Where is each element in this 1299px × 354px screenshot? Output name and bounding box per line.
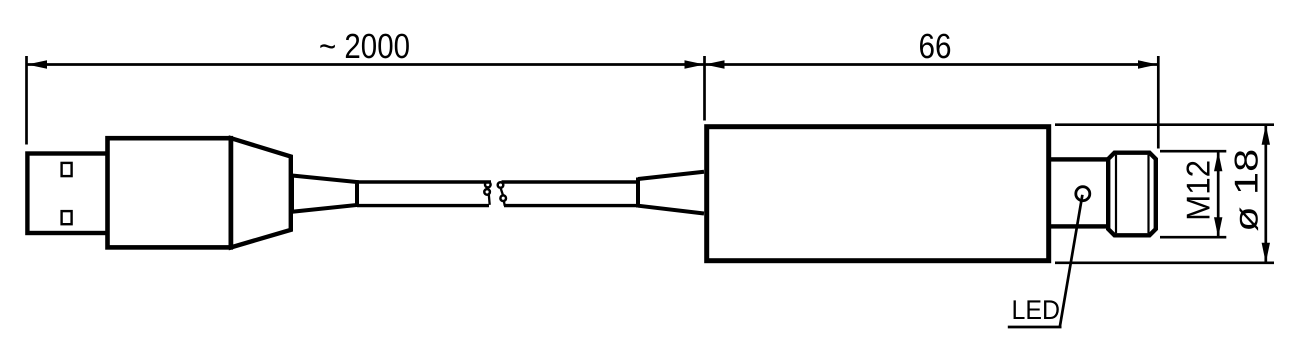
- M12 extension line top: [1160, 150, 1226, 153]
- cable break symbol left: top loop: [485, 182, 491, 188]
- diameter 18 extension line bottom: [1055, 261, 1274, 264]
- diameter 18 arrowhead up: [1262, 125, 1270, 145]
- svg-text:LED: LED: [1012, 295, 1061, 325]
- adapter body rectangle (66 mm): [707, 127, 1049, 261]
- cable left segment top line: [357, 180, 491, 183]
- cable right segment bottom line: [504, 204, 640, 207]
- arrowhead right of ~2000: [685, 60, 705, 68]
- strain relief boot (USB side): [292, 176, 357, 212]
- dimension line ~2000: [27, 63, 705, 66]
- cable break symbol right: top loop: [498, 182, 504, 188]
- cable break symbol right: bottom loop: [500, 195, 506, 201]
- LED leader line: [1060, 195, 1083, 327]
- diameter 18 extension line top: [1055, 123, 1274, 126]
- LED label underline: [1008, 326, 1062, 329]
- extension line left (USB end of ~2000): [25, 56, 28, 145]
- cable left segment bottom line: [357, 204, 489, 207]
- M12 arrowhead down: [1214, 217, 1222, 237]
- strain relief boot (body side) top line: [638, 172, 704, 179]
- M12 extension line bottom: [1160, 236, 1226, 239]
- cable break symbol left: bottom loop: [484, 189, 490, 195]
- svg-text:M12: M12: [1180, 160, 1217, 221]
- cable break symbol right: connector: [501, 189, 503, 195]
- M12 dimension line: [1217, 151, 1220, 237]
- arrowhead left of 66: [705, 60, 725, 68]
- USB plug taper to strain relief: [231, 138, 291, 247]
- svg-text:66: 66: [919, 27, 952, 66]
- dimension line 66: [705, 63, 1159, 66]
- svg-text:~ 2000: ~ 2000: [319, 27, 410, 66]
- cable right segment top line: [502, 180, 641, 183]
- thread chamfer line left: [1115, 155, 1117, 233]
- LED indicator circle: [1076, 187, 1090, 201]
- cable break symbol left: tail: [488, 194, 491, 205]
- USB contact hole lower: [62, 211, 72, 224]
- USB plug metal shell: [27, 154, 112, 234]
- USB plug body (overmold): [108, 138, 231, 247]
- strain relief boot (body side) bottom line: [638, 206, 704, 214]
- USB contact hole upper: [62, 163, 72, 176]
- arrowhead left of ~2000: [27, 60, 47, 68]
- extension line right (thread end of 66): [1157, 56, 1160, 149]
- M12 arrowhead up: [1214, 151, 1222, 171]
- M12 thread octagon: [1108, 153, 1156, 236]
- extension line middle (shared, body left edge): [703, 56, 706, 121]
- connector neck: [1049, 159, 1109, 226]
- arrowhead right of 66: [1138, 60, 1158, 68]
- diameter 18 arrowhead down: [1262, 243, 1270, 263]
- diameter 18 dimension line: [1264, 125, 1267, 263]
- svg-text:ø 18: ø 18: [1228, 149, 1265, 232]
- thread chamfer line right: [1147, 155, 1149, 233]
- strain relief boot (body side) end cap: [636, 178, 640, 208]
- cable break symbol right: tail: [504, 201, 505, 206]
